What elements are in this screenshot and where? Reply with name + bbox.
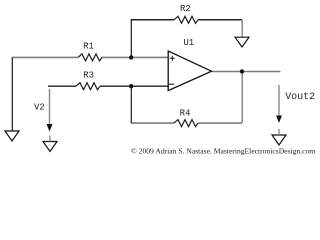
svg-text:U1: U1 — [183, 38, 194, 48]
svg-text:R2: R2 — [180, 4, 191, 14]
svg-text:R4: R4 — [180, 108, 191, 118]
svg-text:R1: R1 — [83, 41, 94, 51]
svg-text:Vout2: Vout2 — [285, 92, 315, 103]
svg-text:© 2009 Adrian S. Nastase. Mast: © 2009 Adrian S. Nastase. MasteringElect… — [131, 147, 315, 156]
svg-text:V2: V2 — [34, 103, 45, 113]
svg-text:R3: R3 — [83, 70, 94, 80]
